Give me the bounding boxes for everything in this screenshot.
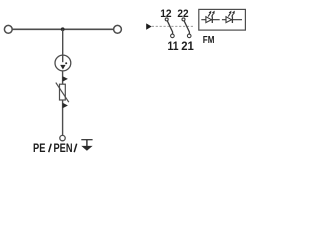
svg-text:FM: FM: [203, 35, 215, 46]
contact S2 blade: [184, 21, 189, 34]
terminal circle right: [114, 25, 122, 33]
varistor R1 body: [60, 84, 66, 100]
varistor diagonal stroke: [56, 83, 69, 103]
LED D2 cathode bar: [231, 16, 233, 23]
LED D2 emission arrows: [228, 11, 235, 17]
LED D1 emission arrows: [208, 11, 215, 17]
contact S1 bottom terminal: [171, 34, 175, 38]
slash 2: [74, 144, 77, 153]
contact S1 top terminal: [165, 18, 168, 21]
disconnect flag lower: [63, 103, 68, 108]
wire: top horizontal line L: [12, 28, 113, 30]
actuation arrow to FM contacts: [146, 23, 152, 29]
wire: vertical through varistor branch: [62, 71, 64, 135]
FM box: [199, 9, 246, 30]
LED D2 triangle: [226, 17, 232, 23]
svg-text:PE: PE: [33, 142, 46, 155]
LED D1 cathode bar: [211, 16, 213, 23]
spark gap top electrode: [62, 55, 64, 62]
terminal circle PE: [60, 135, 65, 140]
disconnect flag upper: [63, 76, 68, 81]
contact S1 blade: [167, 21, 172, 34]
terminal circle left: [4, 25, 12, 33]
LED D1 lead: [201, 19, 219, 21]
ground symbol (earth arrow): [81, 140, 92, 147]
node junction on top line: [61, 27, 65, 31]
LED D1 triangle: [206, 17, 212, 23]
svg-text:PEN: PEN: [54, 142, 73, 155]
dashed mechanical link: [152, 25, 194, 27]
spark gap F1 (gas discharge tube circle): [55, 55, 71, 71]
LED D2 lead: [222, 19, 242, 21]
spark gap gas dot: [65, 62, 67, 64]
contact S2 top terminal: [182, 18, 185, 21]
svg-text:21: 21: [181, 39, 194, 53]
wire: vertical from junction to spark gap: [62, 29, 64, 55]
contact S2 bottom terminal: [187, 34, 191, 38]
slash 1: [49, 144, 52, 153]
spark gap arrow electrode: [60, 65, 65, 70]
svg-text:11: 11: [168, 39, 179, 53]
